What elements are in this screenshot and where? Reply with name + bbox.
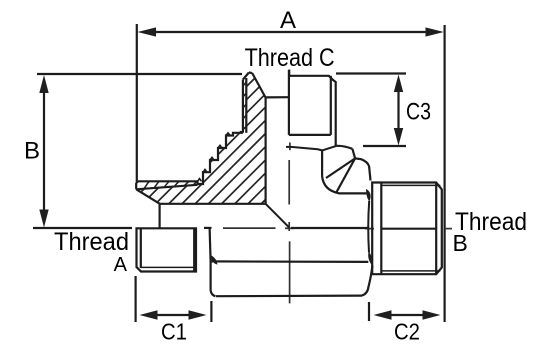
shoulder edge between hex corners: [367, 201, 370, 253]
dimension B extension lines: [33, 74, 242, 228]
sectioned wing outline (port A upper wall): [136, 133, 265, 229]
lower hex corner sliver: [369, 253, 373, 266]
bore miter line: [266, 204, 289, 228]
dimension A extension lines: [137, 24, 445, 322]
centerline vertical (port C axis): [288, 70, 291, 304]
dimension A arrow line: [138, 27, 444, 36]
dimension C2 arrow: [374, 310, 441, 319]
svg-text:C3: C3: [406, 98, 431, 125]
svg-text:C1: C1: [161, 319, 187, 345]
male end A (thread A): [137, 228, 197, 271]
svg-text:B: B: [453, 230, 468, 256]
thread ticks on port A wall band: [144, 181, 197, 188]
right branch shoulder cone: [355, 158, 370, 180]
corner piece (fillet boss at C/B junction): [322, 146, 366, 194]
svg-text:A: A: [114, 254, 128, 276]
hatch of sectioned body wall (upper-left quadrant): [108, 40, 425, 225]
dimension C1 arrow: [140, 310, 207, 319]
port C external half outline: [289, 76, 336, 146]
svg-text:Thread C: Thread C: [245, 44, 335, 72]
upper hex corner sliver: [367, 190, 371, 201]
svg-text:A: A: [280, 7, 296, 34]
thread notches on staircase steps: [198, 133, 231, 182]
centerline horizontal (ports A/B axis): [223, 227, 452, 230]
svg-text:B: B: [24, 138, 40, 165]
svg-text:C2: C2: [394, 319, 420, 345]
dimension C3 extension lines: [336, 74, 406, 147]
thread ticks on port C wall band: [243, 82, 246, 130]
hex body silhouette (bottom external half): [204, 228, 372, 296]
neck saddle under port C: [286, 146, 336, 151]
dimension C2 extension line: [368, 302, 370, 321]
svg-text:Thread: Thread: [54, 228, 129, 256]
dimension C1 extension lines: [136, 276, 212, 322]
left hex corner sliver: [211, 256, 217, 264]
male end B (thread B): [372, 183, 442, 275]
dimension C3 arrow: [394, 75, 403, 146]
dimension B arrow: [39, 75, 48, 228]
port C sectioned half outline: [240, 70, 289, 204]
